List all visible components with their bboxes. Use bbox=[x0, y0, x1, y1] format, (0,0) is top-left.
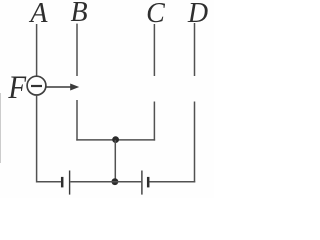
wire C lower segment bbox=[153, 102, 155, 141]
junction dot on bottom wire bbox=[112, 178, 119, 185]
label F bbox=[7, 68, 27, 105]
battery G1 (left cell) bbox=[62, 171, 69, 195]
inner horizontal wire B-C bbox=[76, 139, 155, 141]
svg-text:C: C bbox=[146, 0, 165, 29]
svg-text:F: F bbox=[7, 68, 27, 105]
wire C upper segment bbox=[153, 24, 155, 76]
bottom wire segment right bbox=[149, 181, 195, 183]
svg-text:B: B bbox=[70, 0, 87, 28]
scan artifact left edge bbox=[0, 93, 2, 163]
wire D lower segment bbox=[194, 102, 196, 183]
wire A upper segment bbox=[36, 24, 38, 76]
bottom wire segment middle bbox=[70, 181, 141, 183]
junction dot on inner wire bbox=[112, 136, 119, 143]
label C bbox=[146, 0, 165, 29]
battery G2 (right cell) bbox=[142, 171, 148, 195]
bottom wire segment left bbox=[37, 181, 61, 183]
wire B lower segment bbox=[76, 100, 78, 141]
svg-text:D: D bbox=[187, 0, 208, 29]
wire B upper segment bbox=[76, 24, 78, 76]
label D bbox=[187, 0, 208, 29]
wire D upper segment bbox=[194, 23, 196, 76]
wire A lower segment bbox=[36, 95, 38, 182]
label B bbox=[70, 0, 87, 28]
arrow from source toward B bbox=[46, 84, 79, 91]
label A bbox=[28, 0, 48, 29]
minus sign inside circle bbox=[31, 85, 42, 87]
source circle F (circled minus) bbox=[27, 76, 46, 95]
connector wire from inner junction to bottom wire bbox=[114, 140, 116, 182]
svg-text:A: A bbox=[28, 0, 48, 29]
